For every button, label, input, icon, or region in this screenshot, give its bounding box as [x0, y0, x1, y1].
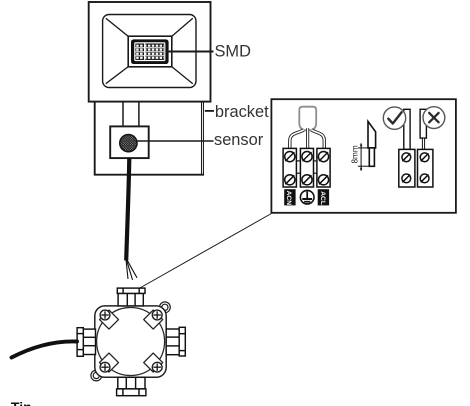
reflector facet lines — [106, 18, 193, 83]
junction box body — [95, 306, 166, 377]
SMD LED chips grid — [135, 44, 164, 60]
terminal label ACN — [284, 189, 295, 205]
svg-text:SMD: SMD — [215, 43, 252, 61]
terminal screws right section — [402, 153, 429, 183]
svg-text:ACL: ACL — [319, 191, 326, 205]
terminal strip bridges — [297, 161, 317, 173]
wire middle — [306, 128, 309, 148]
terminal block earth — [300, 148, 313, 187]
wire being stripped — [369, 148, 374, 166]
floodlight head housing — [89, 2, 211, 102]
svg-text:bracket: bracket — [215, 103, 269, 121]
reflector — [103, 15, 196, 88]
terminal block incorrect — [418, 149, 433, 187]
correct wire — [404, 109, 410, 149]
incorrect wire — [420, 109, 426, 138]
terminal label ACL — [318, 189, 329, 205]
top cable gland — [117, 288, 145, 306]
mounting ear bottom-left — [91, 370, 102, 381]
detail inset panel — [271, 99, 456, 213]
bracket pointer tick — [205, 110, 214, 112]
dimension line 8mm — [358, 143, 369, 171]
wire right — [311, 130, 324, 149]
corner screw top-right — [152, 310, 162, 320]
SMD LED module — [131, 39, 169, 64]
terminal block L — [317, 148, 330, 187]
terminal screws left section — [285, 152, 329, 185]
PIR sensor — [120, 135, 137, 152]
SMD panel frame — [128, 36, 172, 67]
corner wedge top-left — [100, 310, 119, 329]
svg-text:ACN: ACN — [285, 191, 292, 206]
junction box lid — [97, 308, 165, 376]
terminal block N — [283, 148, 296, 187]
pointer line to SMD label — [166, 51, 214, 53]
wire left — [290, 130, 304, 149]
corner wedge top-right — [144, 310, 163, 329]
corner screw bottom-left — [100, 362, 110, 372]
corner screw top-left — [100, 310, 110, 320]
svg-text:8mm: 8mm — [351, 145, 360, 163]
cable strands — [126, 260, 137, 280]
neck — [122, 103, 124, 127]
sensor housing — [110, 126, 149, 158]
left cable gland — [77, 328, 95, 357]
right cable gland — [166, 327, 185, 356]
bare conductor — [422, 138, 424, 149]
bottom cable gland — [117, 377, 146, 395]
supply cable sheath — [299, 107, 316, 131]
corner wedge bottom-right — [144, 353, 163, 372]
earth terminal symbol — [300, 190, 314, 204]
mounting body — [95, 102, 204, 175]
terminal block correct — [399, 149, 415, 187]
corner screw bottom-right — [152, 362, 162, 372]
stripping knife blade — [368, 121, 376, 147]
check mark circle — [383, 107, 405, 129]
bracket arm lines — [202, 102, 204, 176]
cross circle — [423, 107, 445, 129]
corner wedge bottom-left — [100, 353, 119, 372]
mounting ear top-right — [160, 302, 171, 313]
svg-text:Tip: Tip — [11, 399, 32, 406]
sensor pointer line — [136, 140, 214, 142]
svg-text:sensor: sensor — [214, 131, 264, 149]
mains cable — [12, 341, 78, 357]
sensor cable — [126, 158, 129, 261]
leader line to detail inset — [139, 214, 271, 289]
